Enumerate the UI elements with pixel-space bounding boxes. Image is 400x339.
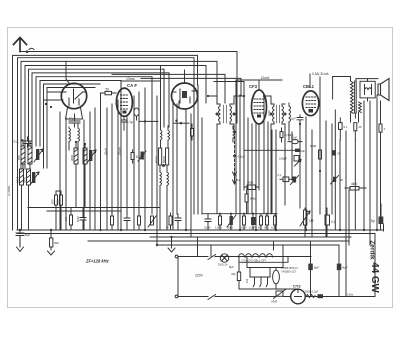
label 110v (347, 293, 354, 297)
svg-text:Fu: Fu (237, 178, 241, 182)
label 1uF (291, 117, 296, 121)
svg-text:2μF: 2μF (301, 149, 306, 153)
svg-text:5000: 5000 (247, 181, 254, 185)
resistor 1k mid (191, 124, 194, 140)
top bus loop 4 (21, 61, 217, 169)
wire run mid-right verticals (161, 66, 203, 237)
label 30k (54, 241, 59, 245)
tube V5 CBL1 envelope (302, 91, 318, 116)
svg-text:110v: 110v (347, 293, 354, 297)
rectifier CY2 electrodes (295, 290, 302, 297)
ground arrow 3 (168, 237, 175, 252)
label Fu (237, 178, 241, 182)
left inner verticals (40, 81, 121, 169)
heater label bracket (240, 257, 288, 262)
speaker field coil (365, 85, 372, 95)
wire speaker top (356, 79, 378, 101)
bottom bus 4 (88, 240, 349, 242)
rectifier CY2 envelope (291, 289, 306, 304)
wire y123 link (174, 122, 189, 124)
wire T2 connections (264, 96, 289, 214)
svg-text:8μF: 8μF (314, 266, 319, 270)
pot arrow 50k right (331, 176, 339, 185)
label CAF (127, 83, 137, 88)
label 0,1 output (344, 125, 348, 129)
tube V4 CF3 envelope (252, 90, 267, 124)
output transformer secondary winding (359, 102, 362, 113)
svg-text:0,3A| 31mA: 0,3A| 31mA (312, 72, 329, 76)
label 8uF (314, 266, 319, 270)
collect rail y289 (239, 288, 298, 291)
svg-text:VDR: VDR (271, 300, 277, 304)
label 16uF (343, 266, 348, 270)
svg-text:2V/0,1A: 2V/0,1A (218, 263, 228, 267)
svg-text:CY1·CF3·CBL1·CF7: CY1·CF3·CBL1·CF7 (242, 258, 267, 262)
label 50uF (69, 117, 76, 121)
label 0,05uF (279, 157, 288, 161)
svg-text:50μF: 50μF (69, 117, 76, 121)
bottom bus 2 (17, 233, 375, 235)
svg-text:0,1: 0,1 (331, 220, 336, 224)
label T.C. (13, 140, 19, 144)
long rail y207 (28, 207, 160, 209)
ground arrow left (17, 236, 24, 252)
top bus loop 8 (36, 77, 152, 146)
svg-text:8μF: 8μF (229, 265, 234, 269)
tube V1 electrodes (44, 80, 87, 107)
bottom bus 1 (17, 229, 384, 231)
label 50 mid (166, 226, 169, 230)
grid resistor 0,1M horizontal (280, 177, 292, 182)
resistor pair 500 (55, 191, 63, 230)
black cap 50 right (332, 150, 336, 155)
svg-text:C7B/5×BY1C7: C7B/5×BY1C7 (281, 266, 298, 270)
resistor 0,4M right (319, 150, 322, 159)
grid pot black (291, 176, 299, 185)
label 5000 (247, 181, 254, 185)
wire transformer primary top (333, 77, 351, 100)
label heater chain (242, 258, 267, 262)
label 500 500 (51, 199, 60, 204)
label 25 (359, 125, 363, 129)
tube V3 envelope (172, 83, 198, 109)
resistor 25 output (354, 123, 357, 140)
mains line lower (178, 296, 291, 298)
svg-text:0,1: 0,1 (278, 173, 282, 177)
selector top rail (247, 257, 273, 278)
ground cap left (16, 230, 24, 246)
junction dot 0,1uF (233, 155, 236, 158)
IF transformer T1 core (224, 105, 227, 123)
volume pot 1M with arrow (300, 208, 310, 237)
row black cap k (251, 214, 256, 230)
svg-text:0,2μF: 0,2μF (249, 226, 256, 230)
resistor 30k to ground (50, 230, 53, 250)
top bus loop 2 (13, 55, 198, 230)
top bus loop 5 (25, 66, 206, 170)
top bus loop 1 (20, 52, 237, 124)
cap 1uF CBL1 cathode (297, 115, 303, 124)
grid feed wires right cluster (112, 74, 244, 103)
wire secondary bottom (351, 113, 359, 123)
label 0,2uF k (249, 226, 256, 230)
svg-text:5000: 5000 (162, 156, 166, 163)
bottom bus 5 (157, 244, 339, 246)
label 50k right3 (340, 178, 344, 182)
voltage selector pins (250, 277, 270, 287)
top bus loop 7 (32, 73, 169, 146)
wire T1 connections (208, 96, 244, 214)
indicator ellipse between tubes (134, 108, 139, 120)
bus drops to heater (273, 241, 283, 268)
electrolytic 5uF right (379, 204, 384, 224)
label 110v selector (245, 278, 249, 283)
electrolytic 16uF (337, 245, 342, 297)
svg-text:5000 0,1μF: 5000 0,1μF (305, 290, 319, 294)
svg-text:3000: 3000 (70, 154, 74, 161)
label CBL1 (303, 84, 315, 89)
mid coil L5 iron core (74, 142, 78, 208)
svg-text:2kΩ: 2kΩ (264, 226, 269, 230)
label 1M (309, 219, 314, 223)
label CY2 (293, 284, 302, 289)
label left edge rotated (7, 186, 11, 196)
svg-text:500: 500 (56, 199, 60, 204)
antenna (14, 38, 27, 52)
svg-text:50kΩ: 50kΩ (250, 197, 257, 201)
svg-text:Zerdik: Zerdik (369, 240, 376, 260)
svg-text:0,05μF: 0,05μF (279, 157, 288, 161)
svg-text:a=1860: a=1860 (7, 186, 11, 196)
svg-text:0,1: 0,1 (344, 125, 348, 129)
svg-text:5000: 5000 (76, 216, 80, 222)
smoothing resistor 5000 on B- line (306, 295, 315, 298)
svg-text:CF3: CF3 (249, 84, 258, 89)
svg-text:0,4M: 0,4M (310, 144, 317, 148)
series resistor R (237, 257, 240, 290)
mid pot P3 arrow (87, 150, 96, 163)
mains switch lower (208, 295, 216, 300)
tube1 base boot (66, 108, 83, 120)
tube2 bottom cap 0,1uF (122, 117, 127, 131)
svg-text:1,5kΩ: 1,5kΩ (215, 226, 222, 230)
VDR box (274, 290, 286, 299)
oscillator coil pair upper (161, 126, 170, 148)
tube V3 electrodes (172, 89, 197, 107)
svg-text:7A/1BD+1C7: 7A/1BD+1C7 (281, 270, 297, 274)
svg-text:25: 25 (359, 125, 363, 129)
label 2k n (264, 226, 269, 230)
row resistor l (260, 214, 263, 230)
right edge vertical to 5uF (383, 224, 385, 231)
oval cap 50nF (288, 140, 302, 144)
heater chain bumps (239, 254, 273, 257)
junction dots row rail (219, 213, 268, 215)
label 8uF small (229, 265, 234, 269)
svg-text:50kΩ: 50kΩ (227, 226, 233, 230)
top bus loop 3 (18, 58, 195, 230)
label 0,1u under tube2 (127, 120, 133, 124)
resistor 4k horizontal (345, 187, 366, 191)
svg-text:Rβ: Rβ (232, 272, 236, 276)
wire y121 link (140, 120, 158, 122)
resistor 50 left of tube2 (101, 91, 117, 94)
label 31mA (312, 72, 329, 76)
component row left resistor a (111, 211, 114, 230)
svg-text:8μF: 8μF (343, 266, 348, 270)
component row resistor 50 mid (169, 213, 172, 230)
mid coil L6 iron core (83, 144, 87, 208)
resistor 5000 horizontal mid (244, 185, 259, 190)
svg-text:CA F: CA F (127, 83, 137, 88)
output transformer primary winding (351, 81, 354, 113)
component row left cap b (124, 211, 130, 230)
resistor 4ohm speaker (379, 101, 382, 140)
IF transformer T1 terminals (216, 113, 236, 116)
left coil pair under V1 (69, 124, 80, 150)
electrolytic 8uF (308, 241, 313, 297)
svg-text:650: 650 (17, 155, 21, 160)
mains left vertical (177, 257, 179, 297)
label 5uF left (25, 233, 30, 237)
label 0,1uF dot (238, 155, 246, 159)
svg-text:50: 50 (338, 152, 342, 156)
row resistor n (266, 214, 269, 230)
row resistor g 1,5k (219, 214, 222, 230)
padder pot P1 with arrow (34, 149, 43, 162)
ballast tube urdox (273, 268, 280, 290)
wire x349 down (348, 190, 350, 245)
label 4k (351, 182, 357, 186)
lower pot P2 arrow (30, 172, 39, 185)
cap 0,1 output (339, 118, 343, 140)
band coil L1 iron core (21, 140, 25, 169)
wire run right verticals (285, 77, 381, 297)
label 57mA rotated (118, 147, 122, 155)
rail y211 (47, 210, 121, 212)
label ballast (281, 266, 298, 274)
top bus loop 6 (29, 69, 165, 146)
svg-text:5μF: 5μF (25, 233, 30, 237)
wire tube3 top (184, 70, 186, 83)
label 50nF (291, 136, 297, 140)
tube V2 envelope (116, 88, 132, 116)
label 11mA (126, 77, 135, 81)
label 0,3M o (271, 226, 277, 230)
wire tube4 top (236, 80, 282, 90)
svg-text:50nF: 50nF (291, 136, 297, 140)
label 22nA rotated (104, 148, 108, 155)
wire tube1 top (65, 61, 67, 79)
label 1,5k sideways (267, 110, 271, 116)
wire tube2 top (121, 81, 161, 88)
bottom bus 3 (150, 236, 351, 238)
oscillator coil pair lower (160, 165, 169, 230)
label R (232, 272, 236, 276)
row resistor o (274, 214, 277, 230)
tone cap 0,1uF (325, 208, 330, 237)
label 0,1uF tone (331, 220, 336, 224)
B- return wire (305, 234, 375, 297)
svg-text:110: 110 (245, 278, 249, 283)
svg-text:44 GW: 44 GW (369, 262, 380, 293)
left trimmer cap T.C. (24, 137, 31, 147)
svg-text:4kΩ: 4kΩ (351, 182, 357, 186)
cap 0,05uF (294, 156, 299, 162)
label 0060 sideways (16, 176, 27, 183)
mid pot black with arrow (138, 151, 146, 161)
label ZF (85, 259, 110, 264)
left row cap q (80, 208, 86, 231)
output transformer core (355, 81, 357, 113)
IF transformer T2 core (277, 105, 280, 123)
left cathode capacitor 50uF (69, 114, 80, 127)
IF transformer T2 third winding (289, 103, 291, 126)
tube V4 electrodes (254, 99, 264, 118)
mains line upper (178, 256, 311, 258)
label 0,1uF f (204, 226, 211, 230)
lower coil L4 iron core (27, 169, 31, 230)
row pot h black arrow (227, 214, 236, 230)
title Zerdik rotated (369, 240, 376, 260)
svg-text:CY2: CY2 (293, 284, 302, 289)
svg-text:30k: 30k (54, 241, 59, 245)
component row left pot arrow (148, 216, 156, 227)
resistor 0,3M right column (280, 128, 283, 142)
label 50 l (258, 226, 261, 230)
IF transformer T1 left winding (217, 104, 220, 124)
row resistor j (243, 214, 246, 230)
label 50k (227, 226, 233, 230)
left row resistor p (70, 208, 73, 231)
label 2uF (301, 149, 306, 153)
mains switch upper (208, 255, 216, 260)
svg-text:CBL1: CBL1 (303, 84, 315, 89)
mains plug prongs (175, 255, 178, 298)
IF transformer T2 terminals (270, 113, 287, 116)
label lamp (218, 263, 228, 267)
svg-text:1μF: 1μF (291, 117, 296, 121)
dial lamp (220, 254, 228, 262)
row rail y213.7 (203, 213, 277, 215)
label 650 sideways (17, 155, 21, 160)
coil under T1 (233, 126, 235, 142)
label 0,4M (310, 144, 317, 148)
label 1,5k (215, 226, 222, 230)
svg-text:220V: 220V (195, 274, 204, 278)
svg-text:13ma: 13ma (126, 77, 135, 81)
label 5000 5000 sideways (155, 156, 166, 163)
wire tube5 top (309, 74, 311, 88)
label 0,1M (278, 173, 282, 177)
svg-text:0900: 0900 (23, 176, 27, 183)
resistor 50k vertical (245, 190, 248, 214)
wire run tube4 verticals (236, 80, 276, 230)
label 0,3M (285, 133, 293, 137)
tube V1 mixer envelope (61, 83, 86, 108)
gang dashed link (233, 132, 237, 184)
svg-text:0,1μF: 0,1μF (240, 226, 247, 230)
oscillator padder resistors 5000/5000 (159, 148, 169, 165)
row cap f 0,1uF (205, 214, 211, 230)
wire run middle block verticals (101, 81, 158, 245)
IF transformer T2 right winding (282, 104, 285, 124)
label 50 (106, 87, 110, 91)
antenna coupling capacitor (26, 48, 34, 53)
fuse 0,5A (318, 294, 324, 298)
node osc junction (162, 164, 165, 167)
lower coil L3 iron core (20, 169, 24, 230)
label VDR (271, 300, 277, 304)
label 50kO (250, 197, 257, 201)
label 12mA (261, 76, 271, 80)
resistor 10k mid (131, 150, 134, 163)
svg-text:50: 50 (106, 87, 110, 91)
black cap 2uF (295, 149, 300, 152)
label CF3 (249, 84, 258, 89)
svg-text:0060: 0060 (16, 176, 20, 183)
svg-text:ZF=128 kHz: ZF=128 kHz (85, 259, 110, 264)
label 5000 0,1uF (305, 290, 319, 294)
component row left cap d (175, 214, 181, 230)
svg-text:5μ: 5μ (371, 219, 375, 223)
label row small (64, 216, 80, 222)
title 44 GW rotated (369, 262, 380, 293)
component row left resistor c (138, 214, 141, 230)
AVC rail y150 (244, 149, 295, 151)
IF transformer T1 right winding (230, 104, 234, 124)
band coil L2 iron core (28, 142, 32, 169)
svg-text:1M: 1M (309, 219, 314, 223)
wire switch feed (198, 237, 212, 257)
label 10k (136, 155, 142, 159)
speaker assembly box (360, 81, 375, 98)
label 4ohm (384, 127, 386, 131)
node dots mid (175, 120, 182, 125)
svg-text:0,1μF: 0,1μF (238, 155, 246, 159)
svg-text:50: 50 (340, 178, 344, 182)
label 3000 sideways (70, 154, 74, 161)
wire run left block verticals (60, 108, 95, 230)
ground arrow 2 (48, 251, 55, 255)
svg-text:500: 500 (51, 199, 55, 204)
node dot L1 top (21, 139, 23, 141)
label 0,1uF j (240, 226, 247, 230)
tube V2 electrodes (121, 95, 129, 114)
speaker cone (378, 79, 389, 101)
label 50 right (338, 152, 342, 156)
svg-text:1,5k: 1,5k (267, 110, 271, 116)
svg-text:0,1μF: 0,1μF (204, 226, 211, 230)
junction dots buses (19, 229, 378, 246)
svg-text:T.C.: T.C. (13, 140, 19, 144)
junction dots scattered (45, 95, 321, 172)
IF transformer T2 left winding (271, 104, 274, 124)
pot arrow mid right (295, 160, 302, 167)
tube V5 electrodes (306, 97, 316, 113)
label 220V (195, 274, 204, 278)
label 5uF (371, 219, 375, 223)
